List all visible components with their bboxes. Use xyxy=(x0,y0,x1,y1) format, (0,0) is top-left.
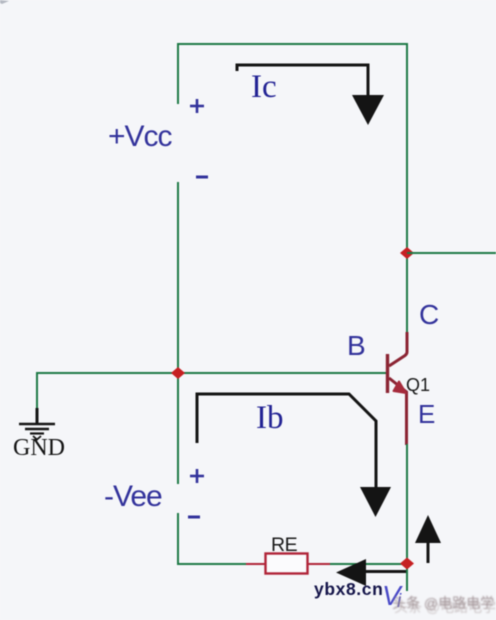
node base junction xyxy=(171,367,185,379)
wire top horizontal Vcc rail xyxy=(178,43,407,45)
svg-text:C: C xyxy=(419,299,439,330)
wire left rail middle xyxy=(177,182,179,484)
voltage source +Vcc minus mark xyxy=(196,176,208,179)
wire bottom horizontal right xyxy=(330,563,407,565)
arrow up (emitter current) xyxy=(427,542,430,563)
svg-text:E: E xyxy=(418,399,435,429)
svg-text:B: B xyxy=(347,330,366,361)
svg-text:GND: GND xyxy=(13,435,65,461)
arrowhead left xyxy=(336,559,366,586)
transistor Q1 emitter arrowhead xyxy=(394,382,407,394)
wire right rail upper xyxy=(406,43,408,333)
voltage source -Vee minus mark xyxy=(188,516,200,519)
svg-text:Ib: Ib xyxy=(256,400,284,436)
watermark red text xyxy=(392,595,496,615)
voltage source +Vcc plus mark xyxy=(190,99,204,113)
voltage source -Vee plus mark xyxy=(190,469,204,483)
svg-text:RE: RE xyxy=(271,534,298,556)
wire base horizontal xyxy=(37,372,388,374)
svg-text:ybx8.cn: ybx8.cn xyxy=(314,579,383,599)
arrow left (input current) xyxy=(364,570,406,573)
resistor RE lead left xyxy=(246,563,266,565)
svg-text:Q1: Q1 xyxy=(406,375,430,395)
arrowhead Ic (down) xyxy=(352,95,384,125)
svg-text:+Vcc: +Vcc xyxy=(108,120,173,153)
transistor Q1 (NPN) xyxy=(388,332,408,445)
ground GND symbol xyxy=(19,408,55,440)
wire collector output to right edge xyxy=(407,252,496,254)
corner smudge xyxy=(0,0,9,4)
wire left rail upper (to +Vcc source) xyxy=(177,43,179,104)
resistor RE body xyxy=(266,554,308,574)
wire left rail lower xyxy=(177,513,179,564)
wire ground drop xyxy=(36,372,38,410)
arrowhead Ib (down) xyxy=(360,487,391,517)
resistor RE lead right xyxy=(308,563,331,565)
wire emitter rail lower xyxy=(406,444,408,591)
node emitter junction xyxy=(400,558,414,570)
current loop Ib xyxy=(197,394,376,489)
arrowhead up xyxy=(415,515,441,543)
current loop Ic xyxy=(237,65,368,97)
node collector junction xyxy=(400,247,414,259)
svg-text:-Vee: -Vee xyxy=(104,480,162,513)
svg-text:头条 @电路电学: 头条 @电路电学 xyxy=(394,599,496,615)
wire bottom horizontal left xyxy=(177,563,246,565)
svg-text:Ic: Ic xyxy=(251,69,277,105)
